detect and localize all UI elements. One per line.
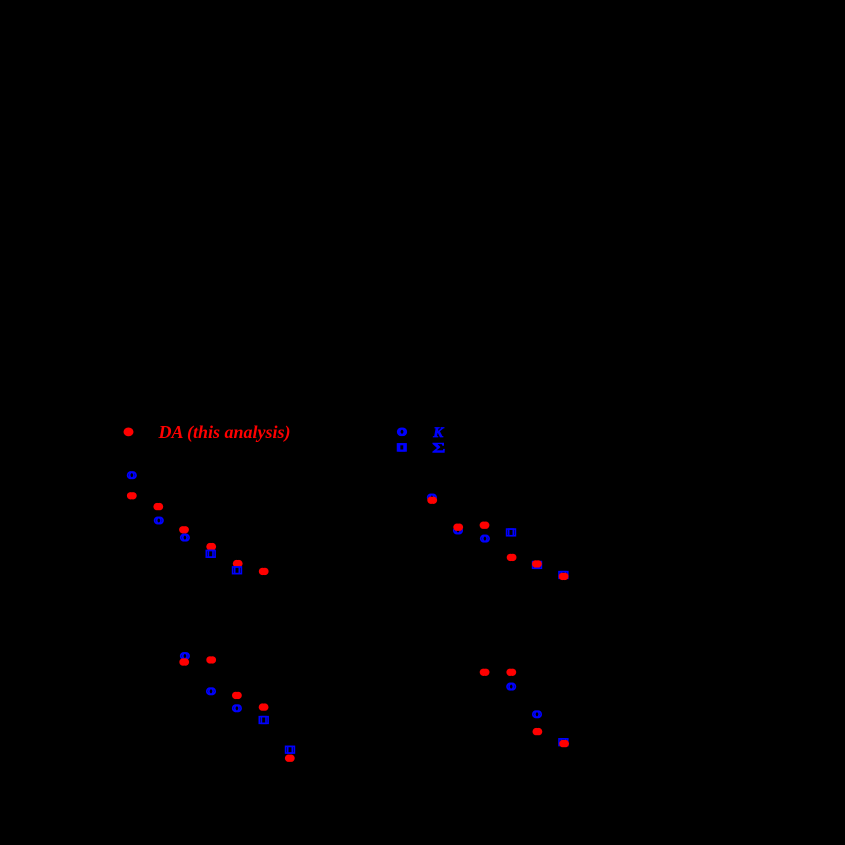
svg-text:DA (this analysis): DA (this analysis) xyxy=(158,422,291,443)
svg-text:Σ: Σ xyxy=(432,439,445,456)
